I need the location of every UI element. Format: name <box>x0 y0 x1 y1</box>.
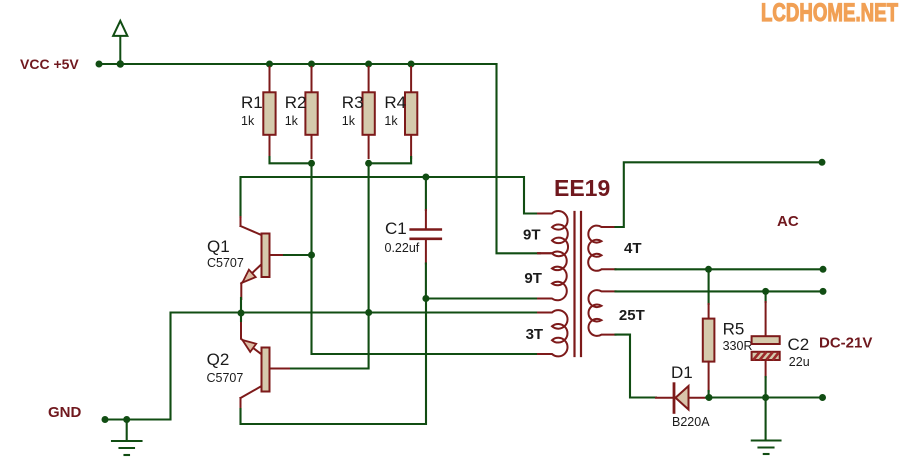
wire R2 column down to 3T bottom line <box>312 163 546 354</box>
transformer primary winding 3T <box>538 310 568 356</box>
svg-text:R5: R5 <box>723 320 745 339</box>
svg-text:1k: 1k <box>384 114 398 128</box>
svg-text:R4: R4 <box>384 93 406 112</box>
wire DC output line <box>706 396 823 398</box>
node AC top end dot <box>819 159 826 166</box>
svg-text:C1: C1 <box>385 219 407 238</box>
node VCC rail end dot <box>96 61 103 68</box>
transistor Q1 <box>207 217 285 299</box>
wire Q2 emitter up to junction <box>240 313 242 321</box>
node Q1 base junction <box>308 252 315 259</box>
capacitor C2 <box>752 291 810 397</box>
wire R4 bottom to R3 column <box>369 157 412 163</box>
svg-text:LCDHOME.NET: LCDHOME.NET <box>761 0 898 27</box>
wire R3 column down to Q2 base <box>288 163 369 368</box>
svg-text:1k: 1k <box>285 114 299 128</box>
transistor Q2 <box>207 320 290 411</box>
svg-text:1k: 1k <box>241 114 255 128</box>
diode D1 <box>656 363 710 429</box>
node emitter junction <box>238 310 245 317</box>
svg-text:GND: GND <box>48 404 82 421</box>
node 25T top end dot <box>820 288 827 295</box>
wire Q2 collector to bottom wire <box>241 299 427 425</box>
svg-text:330R: 330R <box>723 339 753 353</box>
wire Q1 collector trunk <box>241 177 541 217</box>
wire emitter junction to 3T top <box>241 311 545 313</box>
svg-text:D1: D1 <box>671 363 693 382</box>
wire Q1 base to R2 column <box>284 254 312 256</box>
power arrow VCC <box>113 21 127 64</box>
node GND junction <box>123 416 130 423</box>
node GND wire end dot <box>102 416 109 423</box>
resistor R2 <box>285 67 318 158</box>
wire 4T top to AC out <box>616 162 823 227</box>
svg-text:R1: R1 <box>241 93 263 112</box>
svg-text:9T: 9T <box>523 227 541 244</box>
wire C1 junction to 9T2 bottom <box>426 297 545 299</box>
node C1 top junction <box>422 174 429 181</box>
wire 25T top line <box>616 290 824 292</box>
svg-text:3T: 3T <box>526 326 544 343</box>
wire emitter left down to GND wire <box>105 313 241 420</box>
node C2 bottom junction <box>762 394 769 401</box>
svg-text:C5707: C5707 <box>207 256 244 270</box>
transformer secondary winding 4T <box>588 226 615 271</box>
wire R1 bottom to R2 column <box>270 157 312 163</box>
svg-text:Q1: Q1 <box>207 237 230 256</box>
node C2 top junction <box>762 288 769 295</box>
capacitor C1 <box>385 177 441 299</box>
svg-text:R2: R2 <box>285 93 307 112</box>
node VCC arrow junction <box>117 60 124 67</box>
node R1R2 junction <box>308 160 315 167</box>
resistor R3 <box>342 67 375 158</box>
svg-text:R3: R3 <box>342 93 364 112</box>
node C1 bottom junction <box>422 295 429 302</box>
resistor R1 <box>241 67 276 158</box>
resistor R5 <box>703 269 753 397</box>
node R3R4 junction <box>365 160 372 167</box>
ground right <box>752 398 781 455</box>
node R2 top junction <box>308 61 315 68</box>
node R4 top junction <box>408 61 415 68</box>
svg-text:DC-21V: DC-21V <box>819 335 872 352</box>
svg-text:0.22uf: 0.22uf <box>385 241 420 255</box>
node DC end dot <box>819 394 826 401</box>
ground <box>112 420 142 456</box>
svg-text:VCC +5V: VCC +5V <box>20 56 79 72</box>
transformer primary winding 9T upper <box>538 211 568 256</box>
svg-text:4T: 4T <box>624 240 642 257</box>
transformer secondary winding 25T <box>588 290 615 336</box>
wire VCC down to center tap <box>497 64 541 253</box>
transformer primary winding 9T lower <box>538 252 567 301</box>
svg-text:22u: 22u <box>789 355 810 369</box>
svg-text:C5707: C5707 <box>207 371 244 385</box>
node R3 top junction <box>365 61 372 68</box>
wire VCC rail <box>99 63 497 65</box>
wire Q1 emitter down to junction <box>240 298 242 313</box>
node AC bottom end dot <box>820 266 827 273</box>
svg-text:1k: 1k <box>342 114 356 128</box>
svg-text:C2: C2 <box>788 335 810 354</box>
svg-text:B220A: B220A <box>672 415 710 429</box>
transformer core <box>573 212 575 356</box>
resistor R4 <box>384 67 417 158</box>
node D1 R5 junction <box>706 394 713 401</box>
svg-text:9T: 9T <box>524 270 542 287</box>
node 3T-top column junction <box>365 309 372 316</box>
node R1 top junction <box>266 61 273 68</box>
svg-text:Q2: Q2 <box>207 350 230 369</box>
node R5 top junction <box>705 266 712 273</box>
wire 25T bottom to D1 <box>616 335 657 398</box>
svg-text:EE19: EE19 <box>554 175 610 201</box>
svg-text:AC: AC <box>777 213 799 230</box>
svg-text:25T: 25T <box>619 307 645 324</box>
wire 4T bottom line <box>616 268 824 270</box>
